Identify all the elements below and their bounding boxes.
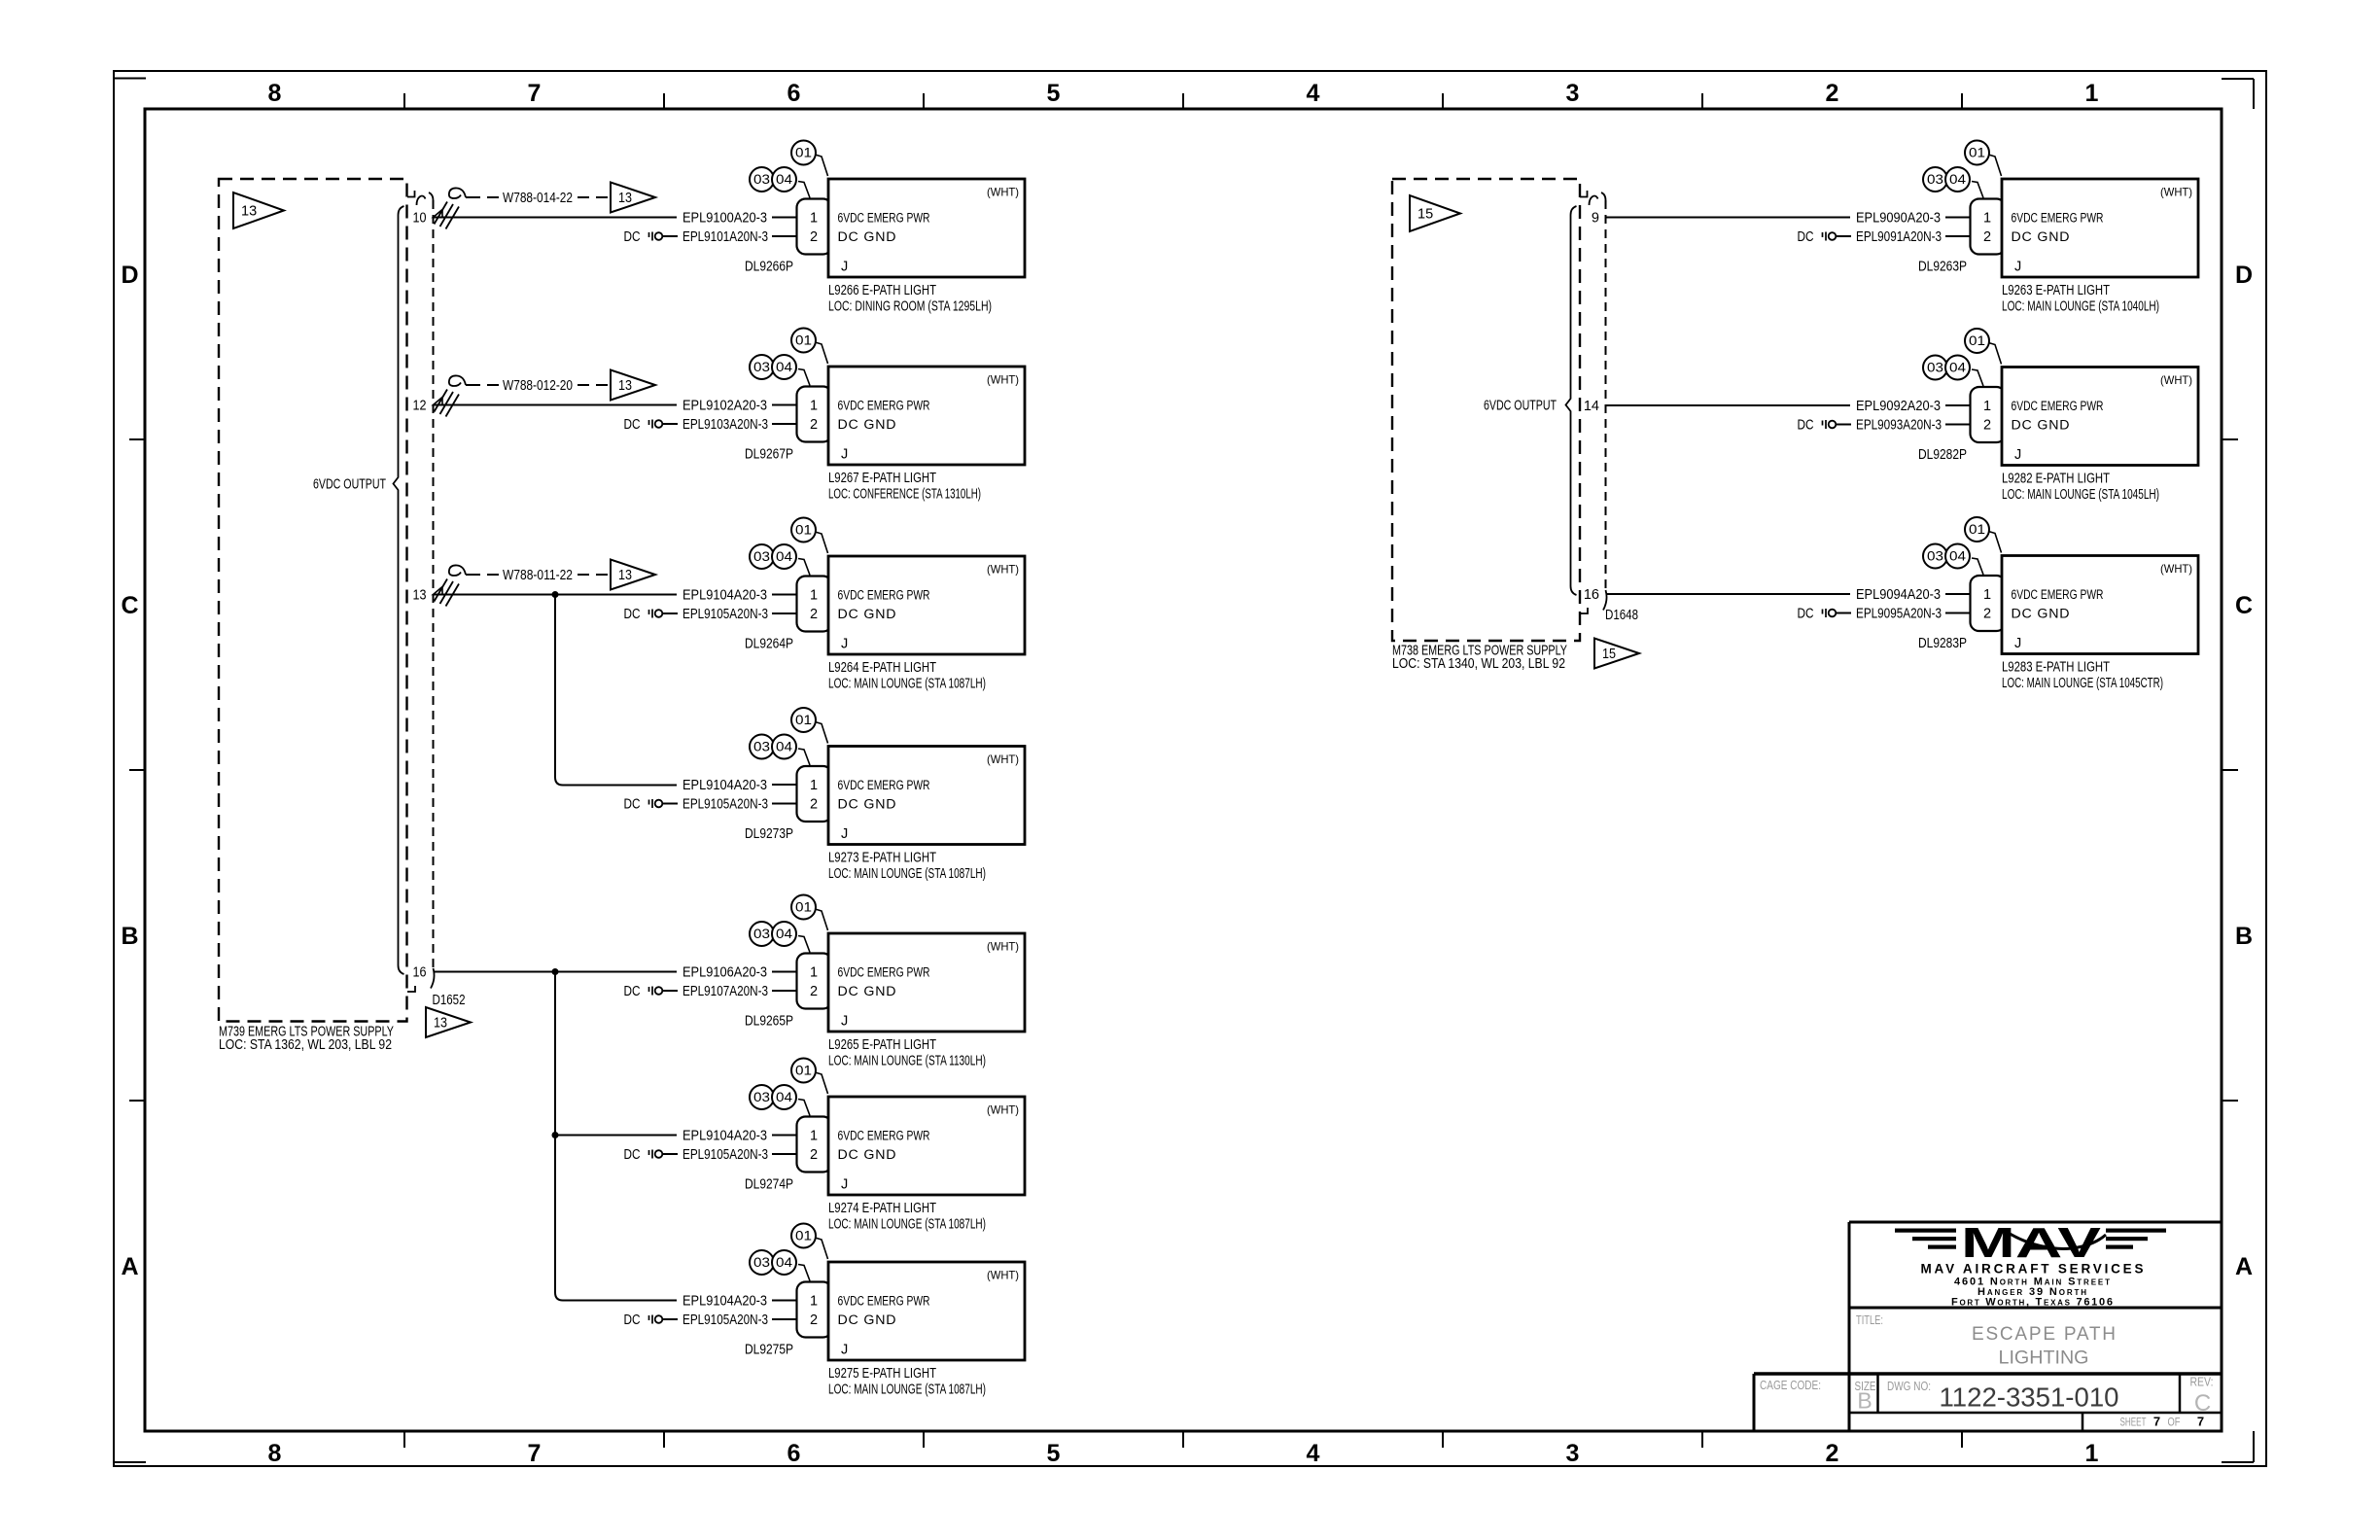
- svg-text:LOC: MAIN LOUNGE (STA 1045LH): LOC: MAIN LOUNGE (STA 1045LH): [2002, 487, 2159, 503]
- svg-text:16: 16: [413, 965, 427, 981]
- svg-text:DL9266P: DL9266P: [745, 260, 793, 275]
- svg-text:EPL9092A20-3: EPL9092A20-3: [1856, 399, 1941, 414]
- svg-text:L9273 E-PATH LIGHT: L9273 E-PATH LIGHT: [828, 851, 936, 866]
- svg-text:1122-3351-010: 1122-3351-010: [1940, 1382, 2119, 1413]
- svg-text:A: A: [2235, 1253, 2253, 1280]
- svg-text:SHEET: SHEET: [2120, 1416, 2147, 1429]
- svg-text:1: 1: [2085, 1440, 2099, 1467]
- svg-text:15: 15: [1602, 647, 1616, 662]
- svg-text:7: 7: [2197, 1415, 2204, 1429]
- svg-text:EPL9100A20-3: EPL9100A20-3: [682, 211, 767, 227]
- svg-text:A: A: [121, 1253, 138, 1280]
- svg-text:13: 13: [434, 1016, 447, 1032]
- svg-text:EPL9105A20N-3: EPL9105A20N-3: [682, 1147, 768, 1163]
- svg-text:EPL9091A20N-3: EPL9091A20N-3: [1856, 229, 1942, 245]
- svg-text:REV:: REV:: [2190, 1375, 2214, 1389]
- svg-text:3: 3: [1566, 1440, 1580, 1467]
- svg-text:L9265 E-PATH LIGHT: L9265 E-PATH LIGHT: [828, 1037, 936, 1053]
- svg-text:TITLE:: TITLE:: [1856, 1312, 1883, 1327]
- svg-text:4: 4: [1307, 1440, 1320, 1467]
- svg-text:5: 5: [1047, 1440, 1061, 1467]
- svg-text:EPL9101A20N-3: EPL9101A20N-3: [682, 229, 768, 245]
- svg-text:EPL9107A20N-3: EPL9107A20N-3: [682, 984, 768, 999]
- svg-text:ESCAPE PATH: ESCAPE PATH: [1972, 1324, 2116, 1345]
- svg-text:B: B: [2235, 923, 2253, 950]
- svg-text:LOC: DINING ROOM (STA 1295LH): LOC: DINING ROOM (STA 1295LH): [828, 299, 992, 315]
- svg-text:6: 6: [787, 1440, 801, 1467]
- svg-text:3: 3: [1566, 80, 1580, 107]
- svg-text:2: 2: [1826, 80, 1839, 107]
- svg-text:DWG NO:: DWG NO:: [1887, 1379, 1931, 1393]
- svg-text:DL9264P: DL9264P: [745, 637, 793, 652]
- svg-text:4: 4: [1307, 80, 1320, 107]
- svg-text:C: C: [2235, 592, 2253, 619]
- svg-text:D: D: [2235, 262, 2253, 289]
- svg-text:LOC: MAIN LOUNGE (STA 1040LH): LOC: MAIN LOUNGE (STA 1040LH): [2002, 299, 2159, 315]
- svg-text:W788-011-22: W788-011-22: [503, 568, 573, 583]
- svg-text:5: 5: [1047, 80, 1061, 107]
- svg-text:L9267 E-PATH LIGHT: L9267 E-PATH LIGHT: [828, 471, 936, 486]
- svg-text:LIGHTING: LIGHTING: [1999, 1348, 2089, 1369]
- svg-text:7: 7: [528, 1440, 542, 1467]
- svg-text:LOC: STA 1362, WL 203, LBL 92: LOC: STA 1362, WL 203, LBL 92: [219, 1037, 392, 1053]
- svg-text:DL9282P: DL9282P: [1918, 447, 1967, 463]
- svg-text:EPL9105A20N-3: EPL9105A20N-3: [682, 1312, 768, 1328]
- svg-text:L9263 E-PATH LIGHT: L9263 E-PATH LIGHT: [2002, 283, 2110, 298]
- svg-text:EPL9103A20N-3: EPL9103A20N-3: [682, 417, 768, 433]
- svg-text:8: 8: [268, 1440, 282, 1467]
- svg-text:DL9273P: DL9273P: [745, 826, 793, 842]
- svg-text:EPL9090A20-3: EPL9090A20-3: [1856, 211, 1941, 227]
- svg-text:LOC: MAIN LOUNGE (STA 1045CTR): LOC: MAIN LOUNGE (STA 1045CTR): [2002, 676, 2163, 691]
- svg-text:L9282 E-PATH LIGHT: L9282 E-PATH LIGHT: [2002, 472, 2110, 487]
- svg-text:1: 1: [2085, 80, 2099, 107]
- svg-text:13: 13: [618, 568, 632, 583]
- svg-text:13: 13: [618, 191, 632, 206]
- svg-text:15: 15: [1417, 207, 1433, 223]
- svg-text:DL9274P: DL9274P: [745, 1177, 793, 1193]
- svg-text:Fort Worth, Texas 76106: Fort Worth, Texas 76106: [1951, 1297, 2113, 1309]
- svg-text:EPL9105A20N-3: EPL9105A20N-3: [682, 607, 768, 622]
- svg-text:13: 13: [413, 588, 427, 604]
- svg-text:8: 8: [268, 80, 282, 107]
- svg-text:10: 10: [413, 211, 427, 227]
- svg-text:EPL9104A20-3: EPL9104A20-3: [682, 1294, 767, 1310]
- svg-text:13: 13: [618, 378, 632, 394]
- svg-text:C: C: [121, 592, 138, 619]
- svg-text:EPL9104A20-3: EPL9104A20-3: [682, 778, 767, 793]
- svg-text:B: B: [1857, 1388, 1872, 1414]
- svg-text:OF: OF: [2168, 1416, 2181, 1429]
- svg-text:DL9265P: DL9265P: [745, 1014, 793, 1030]
- svg-text:7: 7: [528, 80, 542, 107]
- svg-text:EPL9105A20N-3: EPL9105A20N-3: [682, 797, 768, 813]
- svg-text:D1648: D1648: [1605, 608, 1638, 623]
- svg-text:2: 2: [1826, 1440, 1839, 1467]
- svg-text:6: 6: [787, 80, 801, 107]
- svg-text:DL9283P: DL9283P: [1918, 636, 1967, 651]
- svg-text:L9266 E-PATH LIGHT: L9266 E-PATH LIGHT: [828, 283, 936, 298]
- svg-text:W788-012-20: W788-012-20: [503, 378, 573, 394]
- svg-text:L9274 E-PATH LIGHT: L9274 E-PATH LIGHT: [828, 1201, 936, 1216]
- svg-text:12: 12: [413, 399, 427, 414]
- svg-text:LOC: MAIN LOUNGE (STA 1087LH): LOC: MAIN LOUNGE (STA 1087LH): [828, 866, 986, 882]
- svg-text:D1652: D1652: [433, 993, 466, 1008]
- svg-text:LOC: STA 1340, WL 203, LBL 92: LOC: STA 1340, WL 203, LBL 92: [1392, 656, 1565, 672]
- svg-text:L9283 E-PATH LIGHT: L9283 E-PATH LIGHT: [2002, 660, 2110, 676]
- svg-text:EPL9104A20-3: EPL9104A20-3: [682, 588, 767, 604]
- svg-text:7: 7: [2153, 1415, 2160, 1429]
- svg-text:DL9263P: DL9263P: [1918, 260, 1967, 275]
- svg-text:EPL9104A20-3: EPL9104A20-3: [682, 1129, 767, 1144]
- svg-text:L9275 E-PATH LIGHT: L9275 E-PATH LIGHT: [828, 1366, 936, 1382]
- svg-text:CAGE CODE:: CAGE CODE:: [1760, 1378, 1821, 1392]
- svg-text:LOC: MAIN LOUNGE (STA 1130LH): LOC: MAIN LOUNGE (STA 1130LH): [828, 1054, 986, 1069]
- svg-text:B: B: [121, 923, 138, 950]
- svg-text:EPL9093A20N-3: EPL9093A20N-3: [1856, 418, 1942, 434]
- svg-text:16: 16: [1584, 587, 1599, 603]
- svg-text:6VDC OUTPUT: 6VDC OUTPUT: [313, 477, 386, 493]
- svg-text:L9264 E-PATH LIGHT: L9264 E-PATH LIGHT: [828, 660, 936, 676]
- svg-text:13: 13: [241, 204, 257, 220]
- svg-text:D: D: [121, 262, 138, 289]
- svg-text:LOC: MAIN LOUNGE (STA 1087LH): LOC: MAIN LOUNGE (STA 1087LH): [828, 1217, 986, 1233]
- svg-text:DL9267P: DL9267P: [745, 447, 793, 463]
- svg-text:LOC: MAIN LOUNGE (STA 1087LH): LOC: MAIN LOUNGE (STA 1087LH): [828, 677, 986, 692]
- svg-text:EPL9102A20-3: EPL9102A20-3: [682, 399, 767, 414]
- svg-text:C: C: [2194, 1390, 2211, 1417]
- svg-text:EPL9095A20N-3: EPL9095A20N-3: [1856, 607, 1942, 622]
- svg-text:EPL9094A20-3: EPL9094A20-3: [1856, 587, 1941, 603]
- svg-text:14: 14: [1584, 399, 1599, 414]
- svg-text:W788-014-22: W788-014-22: [503, 191, 573, 206]
- svg-text:LOC: CONFERENCE (STA 1310LH): LOC: CONFERENCE (STA 1310LH): [828, 487, 981, 503]
- svg-text:MAV AIRCRAFT SERVICES: MAV AIRCRAFT SERVICES: [1921, 1262, 2144, 1277]
- svg-text:DL9275P: DL9275P: [745, 1343, 793, 1358]
- svg-text:LOC: MAIN LOUNGE (STA 1087LH): LOC: MAIN LOUNGE (STA 1087LH): [828, 1382, 986, 1398]
- svg-text:6VDC OUTPUT: 6VDC OUTPUT: [1484, 399, 1557, 414]
- svg-text:9: 9: [1592, 211, 1599, 227]
- svg-text:EPL9106A20-3: EPL9106A20-3: [682, 965, 767, 981]
